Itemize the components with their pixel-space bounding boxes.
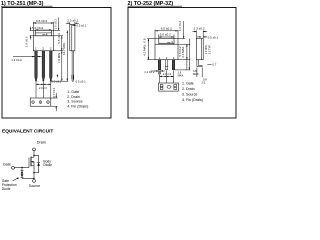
gate terminal (12, 166, 15, 169)
svg-text:0.5 ±0.1: 0.5 ±0.1 (76, 23, 87, 27)
svg-text:4. Fin (Drain): 4. Fin (Drain) (67, 104, 88, 108)
svg-text:3: 3 (50, 47, 52, 51)
svg-text:2: 2 (42, 47, 44, 51)
svg-text:Source: Source (29, 184, 40, 188)
wire body diode bottom (34, 172, 39, 174)
diode D1 gate protection (back-to-back zener) (21, 170, 24, 172)
bottom view right pad 2 (oval) (167, 86, 171, 89)
wire body diode branch (38, 155, 40, 162)
svg-text:6.5 ±0.2: 6.5 ±0.2 (36, 19, 47, 23)
svg-text:1.6 ±0.2: 1.6 ±0.2 (24, 36, 28, 47)
svg-text:6.5 ±0.2: 6.5 ±0.2 (161, 27, 172, 31)
svg-text:0.8: 0.8 (143, 38, 147, 42)
svg-text:3. Source: 3. Source (67, 100, 82, 104)
transistor Q1 channel (30, 157, 32, 167)
wire source bottom (22, 177, 34, 179)
diode D2 body diode (37, 161, 40, 163)
svg-text:Diode: Diode (43, 163, 52, 167)
lead 3 right (172, 60, 174, 70)
wire source stub (31, 165, 34, 167)
svg-text:1.5 TYP.: 1.5 TYP. (207, 44, 211, 54)
wire body stub with arrow (31, 161, 34, 163)
svg-text:5.5 ±0.2: 5.5 ±0.2 (57, 33, 61, 44)
svg-text:3. Source: 3. Source (182, 93, 197, 97)
svg-text:1.1 ±0.2: 1.1 ±0.2 (144, 70, 155, 74)
svg-text:2. Drain: 2. Drain (182, 87, 195, 91)
node junction top (33, 155, 34, 156)
frame box 1 (2, 8, 111, 119)
wire drain down (33, 151, 35, 156)
svg-text:1.1 ±0.2: 1.1 ±0.2 (11, 58, 22, 62)
wire top node (34, 154, 39, 156)
node junction body diode (33, 172, 34, 173)
svg-text:0.7: 0.7 (212, 63, 216, 67)
svg-text:5.0 ±0.2: 5.0 ±0.2 (32, 26, 43, 30)
transistor Q1 gate bar (28, 158, 30, 168)
side view lead (72, 51, 73, 81)
node junction source (33, 178, 34, 179)
svg-text:0.5 ±0.1: 0.5 ±0.1 (208, 35, 219, 39)
lead 3 (50, 51, 53, 81)
wire source vertical (33, 162, 35, 179)
svg-text:1. Gate: 1. Gate (67, 90, 79, 94)
svg-text:2.3: 2.3 (43, 86, 47, 90)
lead 2 (42, 51, 45, 81)
bottom view pad 3 (47, 101, 50, 104)
source terminal (33, 180, 36, 183)
bottom view pad 1 (32, 101, 35, 104)
svg-text:MAX.: MAX. (193, 72, 200, 76)
svg-text:1.6 ±0.2: 1.6 ±0.2 (53, 19, 57, 30)
svg-text:2.3 ±0.2: 2.3 ±0.2 (67, 19, 78, 23)
svg-text:Diode: Diode (2, 187, 11, 191)
svg-text:7.0 MIN.: 7.0 MIN. (57, 52, 61, 63)
svg-text:EQUIVALENT CIRCUIT: EQUIVALENT CIRCUIT (2, 128, 53, 134)
package tab (fin) front (35, 30, 51, 36)
wire zener top (21, 168, 23, 171)
node junction gate-zener (21, 167, 22, 168)
wire gate (14, 167, 29, 169)
svg-text:1: 1 (35, 47, 37, 51)
body front right (155, 44, 178, 60)
svg-text:1. Gate: 1. Gate (182, 81, 194, 85)
side view right body (196, 39, 203, 60)
svg-text:2.0: 2.0 (202, 81, 206, 85)
lead 2 right (cut) (165, 60, 167, 70)
svg-text:Drain: Drain (37, 141, 46, 145)
wire zener bottom (21, 177, 23, 178)
lead 1 right (158, 60, 160, 70)
svg-text:2.3: 2.3 (167, 72, 171, 76)
tab front (fin) (159, 39, 174, 45)
svg-text:2.3 ±0.2: 2.3 ±0.2 (193, 27, 204, 31)
svg-text:Gate: Gate (3, 162, 11, 166)
svg-text:0.5 ±0.1: 0.5 ±0.1 (76, 79, 87, 83)
svg-text:1.6 ±0.2: 1.6 ±0.2 (178, 20, 182, 31)
wire drain stub (33, 155, 35, 157)
frame box 2 (128, 8, 236, 119)
dimension 5.0 line (35, 29, 51, 31)
side view right lead foot (197, 60, 202, 67)
svg-text:2. Drain: 2. Drain (67, 95, 80, 99)
bottom view right body (159, 83, 179, 91)
dimension 6.5 line (33, 22, 53, 24)
bottom view body (30, 98, 51, 106)
package body front (33, 36, 53, 51)
bottom view right pad 3 (174, 85, 177, 90)
drain terminal (33, 148, 36, 151)
bottom view pad 2 (39, 101, 42, 104)
bottom view right pad 1 (160, 85, 163, 90)
side view body (70, 25, 75, 51)
svg-text:13.7 MIN.: 13.7 MIN. (62, 42, 66, 55)
svg-text:4.3 MAX.: 4.3 MAX. (143, 44, 147, 56)
svg-text:MAX.: MAX. (178, 74, 185, 78)
svg-text:0.5 ±0.1: 0.5 ±0.1 (51, 79, 62, 83)
lead 1 (35, 51, 38, 81)
svg-text:4. Fin (Drain): 4. Fin (Drain) (182, 98, 203, 102)
svg-text:5.0 ±0.2: 5.0 ±0.2 (160, 33, 171, 37)
svg-text:6.1 MAX.: 6.1 MAX. (181, 46, 185, 58)
